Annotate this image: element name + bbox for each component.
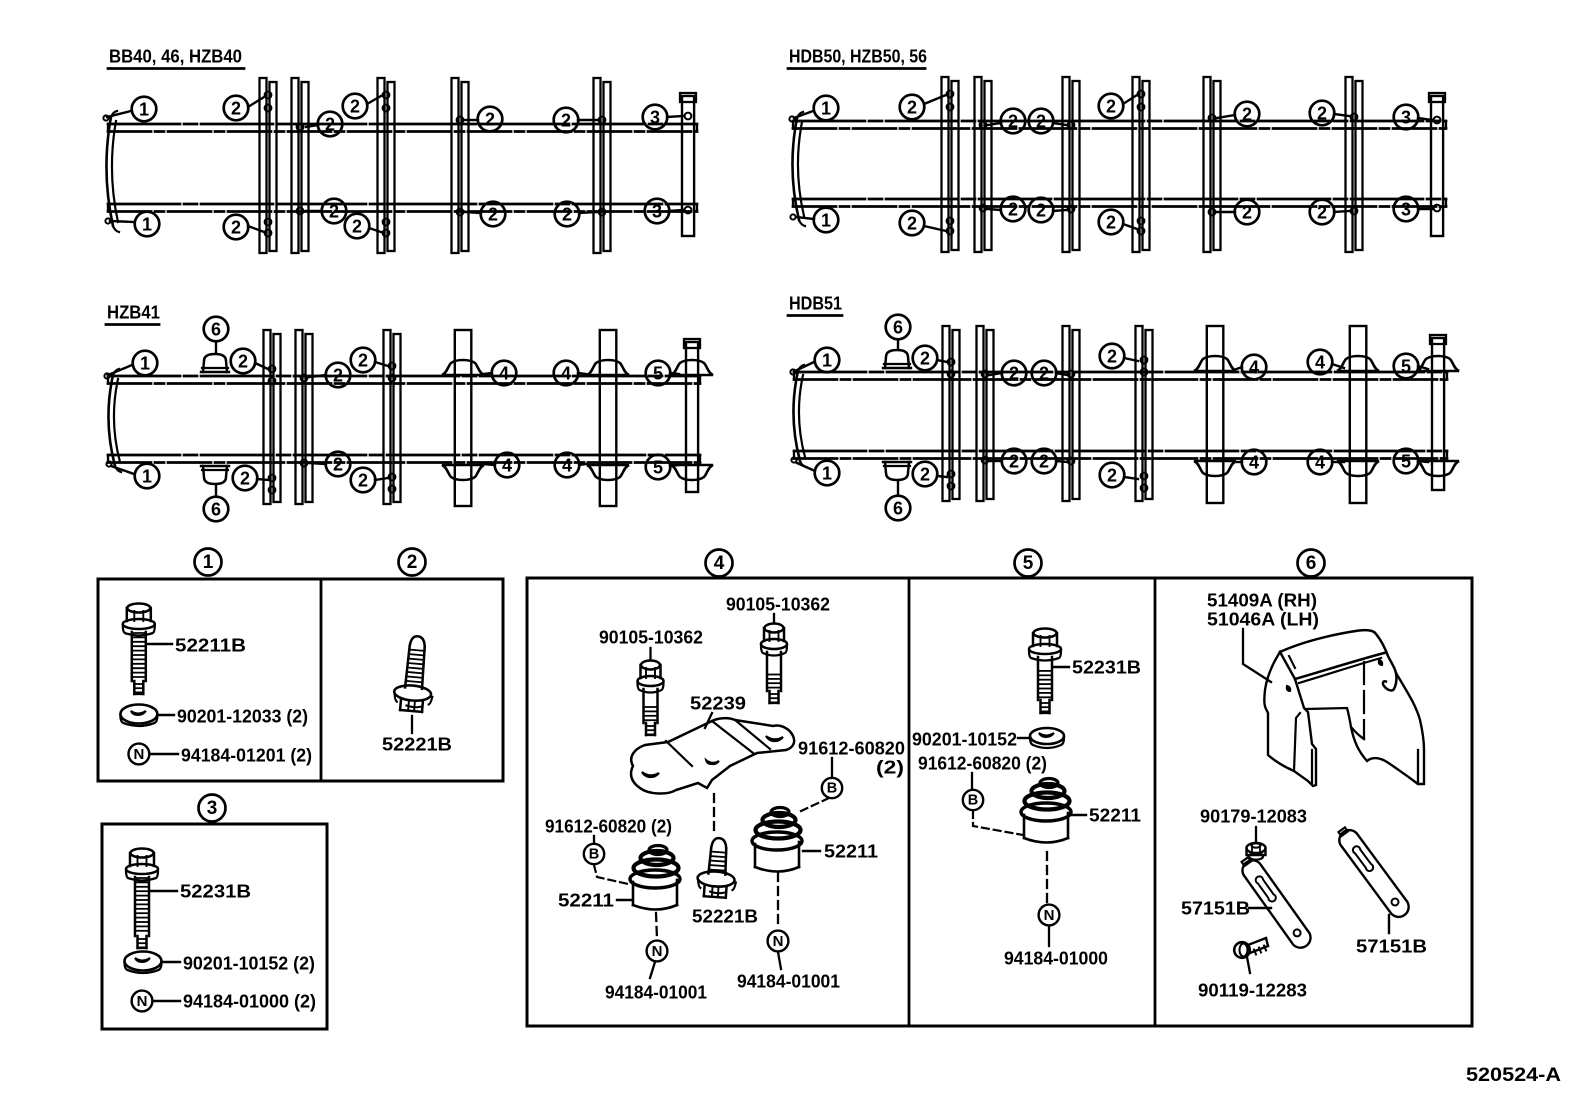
svg-text:2: 2 (329, 202, 339, 222)
svg-text:2: 2 (1106, 97, 1116, 117)
svg-text:94184-01001: 94184-01001 (737, 971, 840, 992)
svg-text:2: 2 (1106, 213, 1116, 233)
svg-text:51046A (LH): 51046A (LH) (1207, 609, 1319, 630)
svg-text:1: 1 (142, 467, 152, 487)
svg-text:HDB50, HZB50, 56: HDB50, HZB50, 56 (789, 46, 927, 67)
svg-text:2: 2 (1008, 200, 1018, 220)
svg-text:94184-01001: 94184-01001 (605, 982, 707, 1003)
svg-text:2: 2 (1009, 364, 1019, 384)
svg-text:2: 2 (238, 352, 248, 372)
svg-text:5: 5 (653, 364, 663, 384)
svg-text:52221B: 52221B (382, 734, 452, 755)
svg-text:57151B: 57151B (1181, 898, 1250, 919)
svg-text:90179-12083: 90179-12083 (1200, 806, 1307, 827)
svg-text:2: 2 (1036, 201, 1046, 221)
svg-text:N: N (1044, 907, 1055, 924)
svg-text:2: 2 (485, 110, 495, 130)
svg-text:52221B: 52221B (692, 906, 758, 927)
svg-text:52231B: 52231B (1072, 657, 1141, 678)
svg-text:2: 2 (358, 471, 368, 491)
svg-text:2: 2 (1036, 112, 1046, 132)
svg-text:2: 2 (1107, 466, 1117, 486)
svg-text:5: 5 (653, 458, 663, 478)
svg-text:HZB41: HZB41 (107, 302, 160, 323)
svg-text:2: 2 (358, 351, 368, 371)
svg-text:52211: 52211 (1089, 805, 1141, 826)
svg-text:2: 2 (333, 455, 343, 475)
svg-text:5: 5 (1023, 553, 1034, 574)
svg-text:1: 1 (140, 354, 150, 374)
svg-text:3: 3 (1401, 108, 1411, 128)
svg-text:2: 2 (333, 366, 343, 386)
svg-text:94184-01000: 94184-01000 (1004, 948, 1108, 969)
svg-text:90201-10152 (2): 90201-10152 (2) (183, 953, 315, 974)
svg-text:N: N (133, 746, 144, 763)
svg-text:4: 4 (1249, 358, 1259, 378)
svg-text:1: 1 (822, 351, 832, 371)
svg-text:90105-10362: 90105-10362 (599, 627, 703, 648)
svg-text:2: 2 (1008, 112, 1018, 132)
svg-text:2: 2 (1009, 452, 1019, 472)
svg-text:2: 2 (352, 217, 362, 237)
svg-text:1: 1 (142, 215, 152, 235)
svg-text:4: 4 (561, 364, 571, 384)
svg-text:4: 4 (499, 364, 509, 384)
svg-text:1: 1 (821, 99, 831, 119)
svg-text:52211: 52211 (558, 890, 614, 911)
svg-text:90119-12283: 90119-12283 (1198, 980, 1307, 1001)
svg-text:N: N (773, 933, 784, 950)
svg-text:3: 3 (207, 798, 218, 819)
svg-text:2: 2 (1317, 104, 1327, 124)
svg-text:51409A (RH): 51409A (RH) (1207, 590, 1317, 611)
svg-text:4: 4 (1315, 453, 1325, 473)
svg-text:1: 1 (203, 552, 214, 573)
svg-text:HDB51: HDB51 (789, 293, 842, 314)
svg-text:(2): (2) (876, 757, 904, 778)
svg-text:52211B: 52211B (175, 635, 246, 656)
svg-text:57151B: 57151B (1356, 936, 1427, 957)
svg-text:2: 2 (488, 205, 498, 225)
svg-text:BB40, 46, HZB40: BB40, 46, HZB40 (109, 46, 242, 67)
svg-text:2: 2 (240, 469, 250, 489)
svg-text:N: N (652, 943, 663, 960)
svg-text:2: 2 (350, 97, 360, 117)
svg-text:91612-60820: 91612-60820 (798, 738, 905, 759)
svg-text:2: 2 (907, 98, 917, 118)
svg-text:2: 2 (325, 115, 335, 135)
svg-text:52239: 52239 (690, 693, 746, 714)
svg-text:6: 6 (893, 318, 903, 338)
svg-text:4: 4 (714, 553, 725, 574)
svg-text:52231B: 52231B (180, 881, 251, 902)
svg-text:2: 2 (231, 99, 241, 119)
svg-text:1: 1 (139, 100, 149, 120)
svg-text:4: 4 (562, 456, 572, 476)
svg-text:2: 2 (407, 552, 418, 573)
svg-text:3: 3 (1401, 200, 1411, 220)
svg-text:1: 1 (821, 211, 831, 231)
svg-text:2: 2 (920, 465, 930, 485)
svg-text:B: B (827, 781, 837, 797)
svg-text:2: 2 (1242, 105, 1252, 125)
svg-text:2: 2 (1317, 203, 1327, 223)
svg-text:2: 2 (562, 205, 572, 225)
svg-text:2: 2 (561, 111, 571, 131)
svg-text:2: 2 (231, 218, 241, 238)
svg-text:N: N (137, 993, 148, 1010)
svg-text:2: 2 (920, 349, 930, 369)
svg-text:94184-01000 (2): 94184-01000 (2) (183, 991, 316, 1012)
svg-text:4: 4 (1315, 353, 1325, 373)
svg-text:2: 2 (1039, 452, 1049, 472)
svg-text:91612-60820 (2): 91612-60820 (2) (545, 816, 672, 837)
svg-text:4: 4 (1249, 453, 1259, 473)
svg-text:90201-10152: 90201-10152 (912, 729, 1017, 750)
svg-text:90201-12033 (2): 90201-12033 (2) (177, 706, 308, 727)
svg-text:94184-01201 (2): 94184-01201 (2) (181, 745, 312, 766)
svg-text:90105-10362: 90105-10362 (726, 594, 830, 615)
svg-text:5: 5 (1401, 452, 1411, 472)
svg-text:B: B (968, 793, 978, 809)
svg-text:91612-60820 (2): 91612-60820 (2) (918, 753, 1047, 774)
svg-text:2: 2 (1039, 364, 1049, 384)
svg-text:2: 2 (907, 214, 917, 234)
svg-text:520524-A: 520524-A (1466, 1064, 1561, 1086)
svg-text:5: 5 (1401, 357, 1411, 377)
svg-text:6: 6 (211, 500, 221, 520)
svg-text:1: 1 (822, 464, 832, 484)
svg-text:3: 3 (650, 108, 660, 128)
svg-text:6: 6 (893, 499, 903, 519)
svg-text:6: 6 (211, 320, 221, 340)
svg-text:2: 2 (1242, 203, 1252, 223)
svg-text:52211: 52211 (824, 841, 878, 862)
svg-text:2: 2 (1107, 347, 1117, 367)
svg-text:3: 3 (652, 202, 662, 222)
svg-text:4: 4 (502, 456, 512, 476)
svg-text:B: B (589, 847, 599, 863)
svg-text:6: 6 (1306, 553, 1317, 574)
